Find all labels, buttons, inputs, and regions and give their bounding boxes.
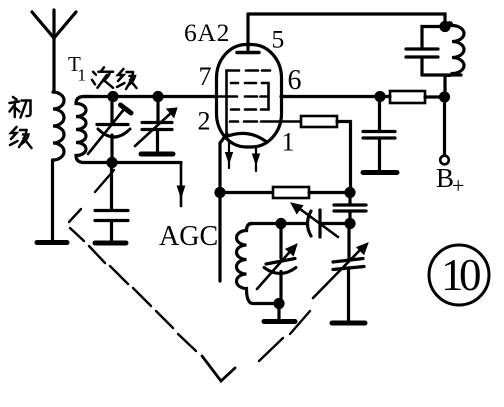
wire oscillator tank bottom [253, 302, 279, 305]
variable capacitor C1 (main tuning, RF) [88, 97, 131, 163]
tube internal connection g5-cathode [225, 71, 228, 134]
ground (screen bypass) [363, 170, 397, 175]
label 级 (primary) [10, 127, 32, 148]
ground (AGC bypass) [95, 241, 126, 246]
heater lead arrow 2 [253, 146, 260, 171]
svg-text:10: 10 [441, 250, 480, 300]
node secondary bottom [108, 159, 116, 167]
capacitor C6 (screen bypass) [363, 97, 395, 171]
node screen bypass [376, 93, 384, 101]
ganged tuning dashed link [69, 170, 310, 381]
capacitor C3 (AGC bypass) [95, 163, 128, 241]
label 级 (secondary) [117, 69, 137, 89]
svg-text:AGC: AGC [159, 221, 218, 252]
wire pin 2 (cathode lead) [220, 134, 227, 281]
svg-text:+: + [452, 173, 464, 198]
wire pin 6 to resistor R3 [281, 95, 390, 98]
svg-text:7: 7 [199, 62, 212, 91]
oscillator coil L3 [237, 224, 254, 304]
node oscillator tank bottom [275, 300, 283, 308]
capacitor C8 (oscillator grid) [334, 193, 366, 224]
tube screen bracket pin 6 [267, 83, 270, 110]
ground (antenna circuit) [37, 240, 67, 245]
svg-text:1: 1 [78, 66, 87, 85]
tube V1 6A2 envelope [217, 45, 282, 148]
svg-text:5: 5 [272, 25, 285, 54]
node cathode / R2 [216, 189, 224, 197]
figure number circle 10 [429, 245, 489, 305]
wire secondary bottom [84, 161, 181, 164]
node tank top [441, 23, 449, 31]
wire to oscillator ground [277, 304, 280, 320]
node B+ [441, 93, 449, 101]
ground (oscillator trimmer) [332, 321, 365, 326]
wire secondary top to tube pin 7 [84, 95, 217, 98]
svg-text:6: 6 [288, 65, 302, 96]
wire anode to tank [248, 14, 445, 28]
node R1/R2 junction [346, 189, 354, 197]
transformer T1 primary coil [53, 92, 64, 160]
capacitor C7 (IF tank) [406, 27, 461, 76]
variable capacitor C4 (oscillator tuning) [257, 224, 297, 304]
resistor R3 (plate decoupling) [390, 91, 445, 103]
resistor R2 (cathode-oscillator) [220, 187, 350, 198]
wire tank to B+ node [443, 76, 446, 98]
wire oscillator tank to padder [281, 222, 307, 225]
anode plate of tube [237, 14, 259, 53]
inductor L2 (IF tank coil) [445, 23, 464, 76]
heater lead arrow 1 [226, 140, 233, 168]
wire primary to ground [51, 160, 54, 240]
node oscillator coupling [346, 220, 354, 228]
svg-text:1: 1 [282, 128, 295, 157]
trimmer capacitor C2 (RF) [135, 97, 177, 155]
padder capacitor C9 (semi-variable, series) [291, 203, 350, 237]
label 次 (secondary) [92, 67, 113, 88]
antenna [32, 10, 76, 92]
wire oscillator tank top [250, 222, 281, 225]
node oscillator tank top [277, 220, 285, 228]
label 初 (primary) [10, 97, 31, 118]
svg-text:6A2: 6A2 [184, 18, 230, 47]
transformer T1 secondary coil [76, 97, 92, 163]
cathode of tube [224, 133, 266, 141]
node secondary top / C1 [109, 93, 117, 101]
B+ terminal [440, 97, 449, 164]
AGC arrow [177, 163, 184, 207]
node secondary top / C2 [154, 93, 162, 101]
variable capacitor C5 (oscillator trimmer) [313, 224, 368, 321]
svg-text:2: 2 [198, 107, 211, 136]
ground (oscillator tank) [264, 319, 295, 324]
resistor R1 (oscillator grid leak) [301, 116, 351, 193]
tube grids (dashed) [217, 71, 301, 122]
